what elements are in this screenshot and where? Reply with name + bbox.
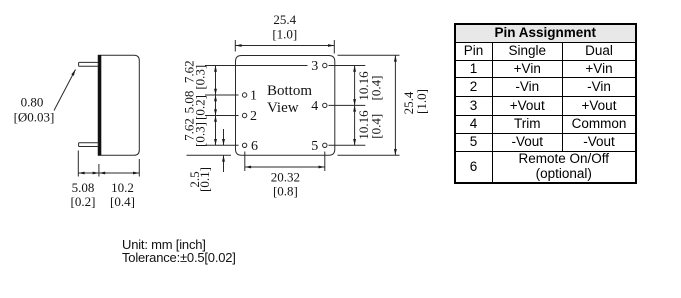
value label 25.4 right (rotated) xyxy=(401,91,416,114)
svg-text:4: 4 xyxy=(311,99,318,114)
pin assignment table xyxy=(454,23,638,184)
svg-text:[0.2]: [0.2] xyxy=(192,95,207,120)
value label 5.08 xyxy=(72,180,95,195)
dimension line 25.4 top xyxy=(235,45,334,47)
svg-text:1: 1 xyxy=(250,89,257,104)
value label [0.2] xyxy=(71,194,96,209)
table row pin 2 xyxy=(455,78,637,96)
value label [0.1] (rotated) xyxy=(197,167,212,192)
pin 2 row tick line xyxy=(205,115,239,117)
pin 4 circle xyxy=(323,103,327,107)
svg-text:[0.8]: [0.8] xyxy=(273,183,298,198)
pin number 4 xyxy=(311,99,318,114)
pin 3 circle xyxy=(323,63,327,67)
value label [1.0] top xyxy=(272,27,297,42)
pin number 3 xyxy=(311,59,318,74)
extension line middle (body front face) xyxy=(98,164,100,177)
table row pin 6 xyxy=(455,152,637,183)
right height extension line bottom xyxy=(338,154,400,156)
value label 0.80 xyxy=(21,94,44,109)
value label 7.62 lower (rotated) xyxy=(181,118,196,141)
svg-text:View: View xyxy=(267,100,299,116)
svg-text:[0.4]: [0.4] xyxy=(110,194,135,209)
value label [0.4] lower (rotated) xyxy=(368,114,383,139)
dimension line 25.4 right xyxy=(394,55,396,155)
pin number 6 xyxy=(251,139,258,154)
table subheader row xyxy=(455,42,637,60)
table row pin 5 xyxy=(455,133,637,151)
side view top pin xyxy=(79,62,99,66)
svg-text:6: 6 xyxy=(251,139,258,154)
top width extension line left xyxy=(234,40,236,52)
value label [0.8] xyxy=(273,183,298,198)
svg-text:Bottom: Bottom xyxy=(267,83,312,99)
value label [1.0] right (rotated) xyxy=(414,89,429,114)
2.5 dim lower arrow xyxy=(223,155,225,172)
svg-text:0.80: 0.80 xyxy=(21,94,44,109)
pin 1 circle xyxy=(242,93,246,97)
pin 6 row tick line xyxy=(205,144,239,146)
value label 25.4 top xyxy=(273,12,296,27)
value label [0.4] upper (rotated) xyxy=(368,76,383,101)
bottom span extension line left (pin 6) xyxy=(244,152,246,172)
extension line right (body back) xyxy=(138,159,140,177)
top width extension line right xyxy=(333,40,335,54)
side view front face thick bar xyxy=(98,55,101,156)
value label 10.16 lower (rotated) xyxy=(356,110,371,140)
svg-text:[0.3]: [0.3] xyxy=(192,65,207,90)
leader arrow for pin diameter 0.80 xyxy=(54,70,76,111)
dimension line 20.32 xyxy=(245,166,325,168)
svg-text:25.4: 25.4 xyxy=(273,12,296,27)
bottom view package outline xyxy=(236,56,335,156)
pin 5 row right tick line xyxy=(329,144,366,146)
bottom span extension line right (pin 5) xyxy=(324,152,326,172)
svg-text:5: 5 xyxy=(311,139,318,154)
svg-text:[1.0]: [1.0] xyxy=(272,27,297,42)
svg-text:[0.4]: [0.4] xyxy=(368,114,383,139)
svg-text:10.2: 10.2 xyxy=(111,180,134,195)
svg-text:[Ø0.03]: [Ø0.03] xyxy=(14,109,55,124)
side view body outline xyxy=(98,55,139,155)
value label [0.3] lower (rotated) xyxy=(192,122,207,147)
units note xyxy=(122,238,236,265)
value label 10.16 upper (rotated) xyxy=(356,71,371,101)
svg-text:[0.3]: [0.3] xyxy=(192,122,207,147)
value label 7.62 upper (rotated) xyxy=(181,60,196,83)
pin 1 row tick line xyxy=(205,94,239,96)
right height extension line top xyxy=(338,54,400,56)
pin 2 circle xyxy=(242,113,246,117)
svg-text:20.32: 20.32 xyxy=(271,169,300,184)
value label [0.4] xyxy=(110,194,135,209)
text Bottom View xyxy=(267,83,312,116)
value label 10.2 xyxy=(111,180,134,195)
svg-text:[0.2]: [0.2] xyxy=(71,194,96,209)
dimension line 5.08 xyxy=(78,172,99,174)
pin 3 row tick line (left, long) xyxy=(205,65,308,67)
extension line left of 5.08 dim xyxy=(77,151,79,177)
side view bottom pin xyxy=(79,143,99,147)
value label 2.5 (rotated) xyxy=(187,171,202,187)
dimension line 7.62 lower left xyxy=(215,116,217,146)
svg-text:5.08: 5.08 xyxy=(72,180,95,195)
value label 5.08 (rotated) xyxy=(181,91,196,114)
value label [Ø0.03] xyxy=(14,109,55,124)
table header Pin Assignment xyxy=(455,24,637,43)
pin 3 row right tick line xyxy=(329,65,366,67)
svg-text:3: 3 xyxy=(311,59,318,74)
table row pin 3 xyxy=(455,96,637,115)
pin number 5 xyxy=(311,139,318,154)
dimension line 10.16 upper xyxy=(354,66,356,106)
table row pin 1 xyxy=(455,60,637,78)
table row pin 4 xyxy=(455,115,637,133)
value label 20.32 xyxy=(271,169,300,184)
pin 6 circle xyxy=(242,143,246,147)
pin number 1 xyxy=(250,89,257,104)
pin 5 circle xyxy=(323,143,327,147)
dimension line 7.62 upper left xyxy=(215,66,217,96)
pin number 2 xyxy=(250,109,257,124)
value label [0.3] upper (rotated) xyxy=(192,65,207,90)
bottom edge extension line for 2.5 dim xyxy=(187,154,232,156)
svg-text:[1.0]: [1.0] xyxy=(414,89,429,114)
dimension line 10.16 lower xyxy=(354,105,356,145)
svg-text:[0.4]: [0.4] xyxy=(368,76,383,101)
dimension line 5.08 left xyxy=(215,95,217,116)
dimension line 10.2 xyxy=(99,172,139,174)
svg-text:2: 2 xyxy=(250,109,257,124)
2.5 dim upper arrow xyxy=(223,129,225,145)
value label [0.2] (rotated) xyxy=(192,95,207,120)
pin 4 row right tick line xyxy=(329,104,366,106)
svg-text:[0.1]: [0.1] xyxy=(197,167,212,192)
